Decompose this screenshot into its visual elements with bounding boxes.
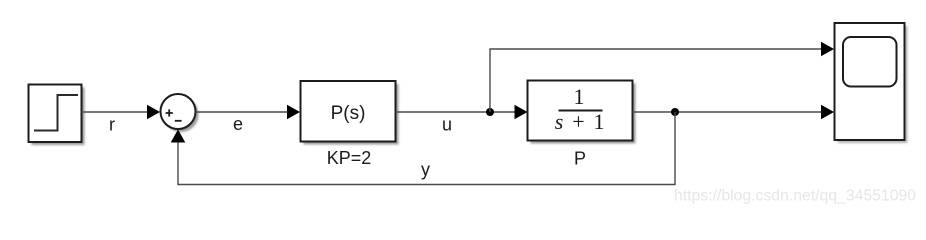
svg-text:y: y [421,160,430,180]
junction dot u-branch [486,108,494,116]
svg-text:u: u [442,115,452,135]
controller block shadow [304,84,399,145]
svg-text:1: 1 [574,84,585,109]
wire y: plant to scope input 2 [633,105,835,120]
wire u to scope input 1 [490,42,834,112]
step source block shadow [32,88,85,146]
svg-text:https://blog.csdn.net/qq_34551: https://blog.csdn.net/qq_34551090 [674,188,916,205]
node label e [233,114,243,134]
svg-text:KP=2: KP=2 [327,148,372,168]
svg-text:e: e [233,114,243,134]
svg-text:P: P [574,149,586,169]
scope block shadow [838,26,908,143]
watermark https://blog.csdn.net/qq_34551090 [674,188,916,205]
svg-text:r: r [109,115,115,135]
feedback wire y to sum [171,112,675,185]
step source block [29,85,82,143]
sum junction shadow [164,97,199,132]
sum junction U1 [161,94,196,129]
wire e: sum to controller [196,105,301,120]
value label KP=2 [327,148,372,168]
plant block 1/(s+1) [528,81,633,141]
controller block P(s) [301,81,396,142]
plant block shadow [531,84,636,144]
node label r [109,115,115,135]
scope block [835,23,905,140]
node label u [442,115,452,135]
junction dot y-branch [671,108,679,116]
svg-text:P(s): P(s) [331,103,366,124]
node label y [421,160,430,180]
block name label P [574,149,586,169]
svg-text:s + 1: s + 1 [555,109,606,134]
wire u: controller to plant [396,105,528,120]
wire r: step to sum [82,105,161,120]
